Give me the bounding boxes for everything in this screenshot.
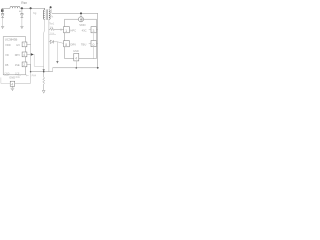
wire vertical drop x=30.6 xyxy=(30,8,32,71)
wire jog to right bus xyxy=(51,8,52,14)
wire after inductor xyxy=(20,7,45,9)
wire pin2 to bus xyxy=(27,64,31,71)
node junction at C2 top xyxy=(21,7,23,9)
wire GND box left xyxy=(1,78,10,84)
wire pin4 with arrow xyxy=(27,53,31,55)
ground arrow under R3 xyxy=(42,90,45,93)
svg-text:hg: hg xyxy=(33,11,37,15)
wire tap xyxy=(49,33,56,35)
svg-text:8: 8 xyxy=(65,43,67,47)
node junction top bus xyxy=(30,7,32,9)
svg-text:DPV: DPV xyxy=(15,53,21,57)
pin box L2 xyxy=(64,41,70,47)
pin box GND bottom xyxy=(10,81,15,86)
svg-text:7: 7 xyxy=(23,43,25,47)
wire upper ground bus xyxy=(53,67,98,69)
wire right edge vertical xyxy=(97,13,99,68)
svg-text:1SE: 1SE xyxy=(15,63,20,67)
svg-text:PH4: PH4 xyxy=(32,75,37,77)
svg-text:Rsn: Rsn xyxy=(21,1,27,5)
IC U2 big box right xyxy=(65,19,97,58)
svg-text:TBU: TBU xyxy=(81,42,86,46)
svg-text:Tse1: Tse1 xyxy=(49,22,55,25)
svg-text:UC3843B: UC3843B xyxy=(5,38,18,42)
pin box 2 xyxy=(22,62,27,67)
svg-text:43C: 43C xyxy=(82,28,87,32)
pin box R2 xyxy=(91,41,96,47)
svg-text:4: 4 xyxy=(11,83,13,87)
transformer T1 primary winding xyxy=(43,8,44,19)
svg-text:FB: FB xyxy=(5,63,9,67)
svg-text:DRV: DRV xyxy=(70,42,76,46)
svg-text:GND: GND xyxy=(73,49,79,53)
ground under C1 xyxy=(1,27,4,29)
node junction bus right corner xyxy=(97,67,99,69)
node junction bus left xyxy=(30,71,32,73)
wire top input bus xyxy=(2,7,10,9)
wire GND pin to bus xyxy=(75,61,77,68)
wire bus riser xyxy=(52,68,54,72)
IC U1 box left xyxy=(3,37,25,75)
wire stubs R1 xyxy=(89,29,98,31)
svg-text:DNC: DNC xyxy=(4,75,9,77)
svg-text:2: 2 xyxy=(23,63,25,67)
wire ground arrow mid xyxy=(56,42,58,61)
node junction above Q1 xyxy=(80,12,82,14)
wire middle vertical (aux) xyxy=(48,19,50,71)
wire GND box right to bus riser xyxy=(15,72,31,84)
svg-text:4CE: 4CE xyxy=(15,77,20,79)
diode D2 row2 xyxy=(49,40,54,43)
wire secondary top to node xyxy=(49,8,51,10)
svg-text:HPC: HPC xyxy=(70,28,76,32)
svg-text:VDD: VDD xyxy=(79,23,86,27)
resistor R3 sense xyxy=(43,72,45,91)
resistor R2 aux feed xyxy=(49,28,64,30)
node junction bus GND xyxy=(75,67,77,69)
pin box 7 xyxy=(22,42,27,47)
svg-text:4: 4 xyxy=(23,53,25,57)
transistor Q1 circle on box top xyxy=(80,13,82,16)
svg-text:1: 1 xyxy=(65,29,67,33)
wire internal right column xyxy=(93,33,95,59)
node junction top center xyxy=(50,6,52,8)
ground under C2 xyxy=(20,27,23,29)
svg-text:3: 3 xyxy=(93,29,95,33)
wire top right horizontal xyxy=(52,12,98,14)
wire stubs R2 xyxy=(89,43,98,45)
wire lower ground bus xyxy=(31,71,53,73)
pin box R1 xyxy=(91,27,96,33)
pin box 4 xyxy=(22,52,27,57)
tick on row1 wire xyxy=(60,29,62,31)
pin box L1 xyxy=(64,27,70,33)
svg-text:GND: GND xyxy=(9,76,15,80)
inductor L1 xyxy=(10,6,20,8)
svg-text:VD: VD xyxy=(5,53,9,57)
svg-text:0: 0 xyxy=(93,43,95,47)
svg-text:HV: HV xyxy=(16,43,20,47)
svg-text:VDD: VDD xyxy=(5,43,11,47)
transformer T1 secondary winding xyxy=(49,10,50,19)
node junction bus x=43.7 xyxy=(43,71,45,73)
wire primary return xyxy=(43,19,46,69)
pin box GND bottom edge xyxy=(74,53,79,61)
node marker at C1 top xyxy=(1,9,3,12)
capacitor C1 to ground xyxy=(2,8,4,14)
ground symbol under GND box xyxy=(11,86,13,88)
wire D2 to pin box L2 xyxy=(54,42,64,44)
svg-text:4: 4 xyxy=(75,56,77,60)
capacitor C2 to ground xyxy=(21,8,23,14)
wire pin7 to vertical xyxy=(27,43,31,45)
transformer T1 core xyxy=(46,9,47,20)
